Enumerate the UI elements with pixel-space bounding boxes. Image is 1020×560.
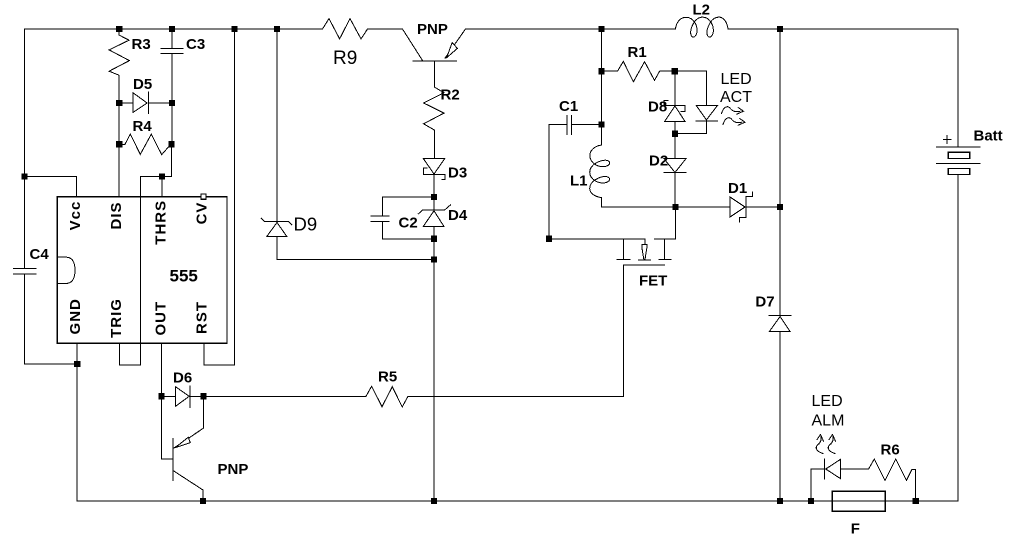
LED ALM xyxy=(811,459,841,501)
LED ACT xyxy=(675,71,718,134)
junction top rail D9 xyxy=(274,26,280,32)
battery Batt xyxy=(937,147,981,163)
resistor R9 xyxy=(323,19,368,39)
op-amp U1 555 timer body xyxy=(57,197,227,344)
wire Vcc tap to pin xyxy=(25,177,77,197)
svg-text:C1: C1 xyxy=(559,98,578,115)
555 notch xyxy=(57,257,75,283)
zener diode D3 xyxy=(423,159,445,197)
junction D1 cathode / right column xyxy=(777,204,783,210)
junction D6 anode/OUT xyxy=(158,393,164,399)
svg-text:CV: CV xyxy=(194,202,211,225)
wire L1 column top xyxy=(601,29,603,145)
svg-text:D1: D1 xyxy=(728,180,747,197)
wire R4 right down to THRS tap row xyxy=(141,144,172,176)
junction D9 tap on zener column xyxy=(431,256,437,262)
junction GND node xyxy=(74,361,80,367)
svg-text:D7: D7 xyxy=(755,294,774,311)
svg-text:C2: C2 xyxy=(399,215,418,232)
wire drain node to D1 xyxy=(675,206,730,208)
svg-text:R2: R2 xyxy=(441,87,460,104)
junction C1/gate node xyxy=(546,236,552,242)
capacitor C1 xyxy=(549,116,602,239)
svg-text:R1: R1 xyxy=(628,44,647,61)
svg-text:R3: R3 xyxy=(132,36,151,53)
zener diode D8 xyxy=(664,71,685,134)
svg-text:R5: R5 xyxy=(378,369,397,386)
wire battery column bottom xyxy=(957,174,959,501)
wire FET gate column to R5 row xyxy=(622,265,624,396)
diode D5 xyxy=(119,92,172,114)
svg-text:D8: D8 xyxy=(648,99,667,116)
svg-text:C4: C4 xyxy=(30,246,50,263)
FET source leg xyxy=(617,239,630,260)
junction C4/Vcc tap xyxy=(22,173,28,179)
svg-text:D2: D2 xyxy=(649,153,668,170)
LED ACT light arrow 1 xyxy=(722,107,744,114)
resistor R3 xyxy=(109,29,129,103)
svg-text:L1: L1 xyxy=(570,173,588,190)
wire right column to D7 xyxy=(779,207,781,315)
wire DIS column between D5 and R4 xyxy=(118,103,120,144)
wire TRIG U-link xyxy=(119,343,140,365)
junction top rail L1 column xyxy=(599,26,605,32)
wire L1 bottom to FET drain node xyxy=(602,198,676,207)
diode D6 xyxy=(161,386,203,408)
LED ALM light arrow 1 xyxy=(816,435,823,454)
junction D4/C2 bottom xyxy=(431,236,437,242)
fuse F xyxy=(832,491,885,511)
resistor R4 xyxy=(119,134,171,155)
junction LED ALM left at rail xyxy=(808,498,814,504)
svg-text:F: F xyxy=(851,521,860,538)
wire top rail L2 to battery corner xyxy=(728,28,958,30)
inductor L1 xyxy=(590,145,610,198)
capacitor C2 xyxy=(371,197,434,239)
junction zener column at rail xyxy=(431,498,437,504)
svg-text:PNP: PNP xyxy=(218,461,249,478)
FET drain leg xyxy=(655,239,676,260)
wire zener column to ground rail xyxy=(433,239,435,501)
resistor R2 xyxy=(424,61,444,158)
junction D3/D4/C2 top xyxy=(431,194,437,200)
junction R4 right xyxy=(168,141,174,147)
wire DIS pin column xyxy=(118,144,120,196)
junction R6 right at rail xyxy=(913,498,919,504)
junction top rail RST column xyxy=(231,26,237,32)
resistor R6 xyxy=(841,459,916,501)
wire top rail PNP emitter to L2 xyxy=(466,28,676,30)
zener diode D9 xyxy=(261,218,292,259)
svg-text:OUT: OUT xyxy=(153,301,170,336)
battery plus sign xyxy=(943,136,951,144)
svg-text:Batt: Batt xyxy=(974,128,1003,145)
wire C4 top lead from rail xyxy=(24,29,26,268)
svg-text:R9: R9 xyxy=(333,48,357,69)
svg-text:D5: D5 xyxy=(133,76,152,93)
resistor R1 xyxy=(602,61,675,81)
svg-text:TRIG: TRIG xyxy=(108,298,125,338)
capacitor C3 xyxy=(161,29,183,103)
svg-text:C3: C3 xyxy=(186,36,205,53)
wire battery column top xyxy=(957,29,959,147)
svg-text:D3: D3 xyxy=(448,165,467,182)
diode D7 xyxy=(769,315,791,501)
svg-text:Vcc: Vcc xyxy=(67,201,84,231)
wire C3 column between D5 and R4 xyxy=(171,103,173,144)
svg-text:D9: D9 xyxy=(294,214,318,235)
diode D2 xyxy=(664,134,686,207)
svg-text:L2: L2 xyxy=(693,2,711,19)
svg-text:D6: D6 xyxy=(173,370,192,387)
svg-text:ACT: ACT xyxy=(720,89,752,106)
LED ACT light arrow 2 xyxy=(723,118,745,125)
svg-text:555: 555 xyxy=(170,267,198,286)
junction R1 left xyxy=(599,68,605,74)
capacitor C4 xyxy=(13,268,36,364)
junction top rail R3 xyxy=(116,26,122,32)
inductor L2 xyxy=(675,17,728,37)
wire feed-through line to TRIG xyxy=(140,177,142,344)
transistor Q1 PNP top xyxy=(403,29,466,61)
wire FET drain column xyxy=(674,207,676,239)
junction D5 anode xyxy=(116,100,122,106)
junction top rail right column xyxy=(777,26,783,32)
svg-text:DIS: DIS xyxy=(108,201,125,229)
junction FET drain/L1/D1 xyxy=(672,204,678,210)
svg-text:LED: LED xyxy=(721,71,752,88)
zener diode D1 xyxy=(730,192,780,222)
wire gate drive row xyxy=(549,238,645,240)
junction R1/D8/LED top xyxy=(672,68,678,74)
junction D7 column at rail xyxy=(777,498,783,504)
wire THRS pin stub xyxy=(161,177,163,197)
junction THRS tap xyxy=(159,173,165,179)
wire D9 column xyxy=(276,29,278,222)
svg-text:GND: GND xyxy=(67,298,84,334)
wire C4 bottom to GND junction xyxy=(25,363,78,365)
junction Q2 collector at rail xyxy=(200,498,206,504)
junction top rail C3 xyxy=(169,26,175,32)
wire top supply rail (left segment to R9) xyxy=(25,28,323,30)
wire top rail R9 to PNP collector xyxy=(368,28,403,30)
svg-text:ALM: ALM xyxy=(812,413,845,430)
transistor Q2 PNP lower xyxy=(161,396,203,501)
junction top rail R1 column xyxy=(599,26,605,32)
junction D8/LED bottom xyxy=(672,131,678,137)
svg-text:RST: RST xyxy=(194,301,211,334)
FET gate plate xyxy=(623,264,664,266)
svg-text:PNP: PNP xyxy=(417,21,448,38)
svg-text:D4: D4 xyxy=(448,207,468,224)
LED ALM light arrow 2 xyxy=(828,435,835,454)
svg-text:R6: R6 xyxy=(881,442,900,459)
wire RST column xyxy=(204,29,234,365)
555 internal divider line xyxy=(140,197,142,344)
wire D9 to zener column xyxy=(277,258,434,260)
wire GND pin column to rail xyxy=(76,343,78,501)
FET body leg with arrow xyxy=(644,239,646,245)
junction C1/L1 node xyxy=(599,121,605,127)
svg-text:R4: R4 xyxy=(133,118,153,135)
wire bottom ground rail xyxy=(77,500,958,502)
junction R4 left xyxy=(116,141,122,147)
resistor R5 xyxy=(203,386,623,407)
zener diode D4 xyxy=(418,197,450,239)
wire right column top xyxy=(779,29,781,207)
junction D5 cathode xyxy=(169,100,175,106)
svg-text:THRS: THRS xyxy=(153,200,170,245)
pin CV unconnected square xyxy=(201,194,206,199)
junction D6 cathode/R5/emitter xyxy=(200,393,206,399)
svg-text:FET: FET xyxy=(639,273,667,290)
svg-text:LED: LED xyxy=(812,393,843,410)
wire OUT pin column xyxy=(160,343,162,459)
